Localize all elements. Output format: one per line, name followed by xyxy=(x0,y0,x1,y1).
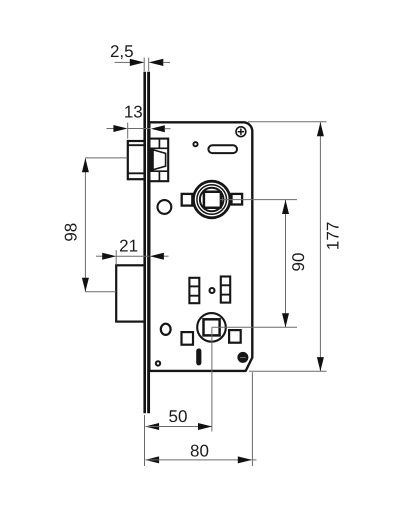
screw top-right xyxy=(236,127,246,137)
screw bottom-right xyxy=(237,352,248,363)
svg-text:98: 98 xyxy=(62,223,81,242)
small hole between stacks xyxy=(210,288,215,293)
oval hole left of lower hub xyxy=(161,324,171,335)
deadbolt (left of faceplate) xyxy=(116,265,145,321)
latch bolt inner body (right of faceplate) xyxy=(149,139,168,182)
tiny hole bottom-left xyxy=(156,361,160,365)
lower hub (key follower) xyxy=(197,313,226,342)
filled slot below lower hub xyxy=(196,351,201,363)
hub left tab xyxy=(182,194,193,206)
svg-text:21: 21 xyxy=(119,237,138,256)
dimension 98 xyxy=(62,158,128,292)
left ladder stack xyxy=(189,278,199,303)
lower-left small square xyxy=(182,332,194,345)
small hole near top xyxy=(193,142,197,146)
round hole upper-left of case xyxy=(158,200,172,214)
faceplate (forend, edge view: two vertical lines) xyxy=(145,72,149,414)
dimension 2,5 xyxy=(110,42,170,71)
dimension 80 xyxy=(145,372,257,466)
dimension 90 xyxy=(212,200,308,328)
lock case outline xyxy=(149,122,253,371)
svg-text:177: 177 xyxy=(324,222,343,250)
right ladder stack xyxy=(221,277,230,303)
svg-text:80: 80 xyxy=(190,441,209,460)
svg-text:2,5: 2,5 xyxy=(110,42,134,61)
hub right tab xyxy=(232,194,243,205)
upper follower hub (handle spindle) xyxy=(193,181,230,218)
latch bolt head (left of faceplate) xyxy=(128,141,145,179)
dimension 50 xyxy=(145,327,213,466)
svg-text:90: 90 xyxy=(289,253,308,272)
dimension 21 xyxy=(96,237,169,265)
lower-right small square xyxy=(229,330,241,343)
elongated slot near top xyxy=(208,145,237,153)
dimension 177 xyxy=(248,122,343,372)
svg-text:50: 50 xyxy=(169,407,188,426)
svg-text:13: 13 xyxy=(124,102,143,121)
dimension 13 xyxy=(107,102,171,138)
